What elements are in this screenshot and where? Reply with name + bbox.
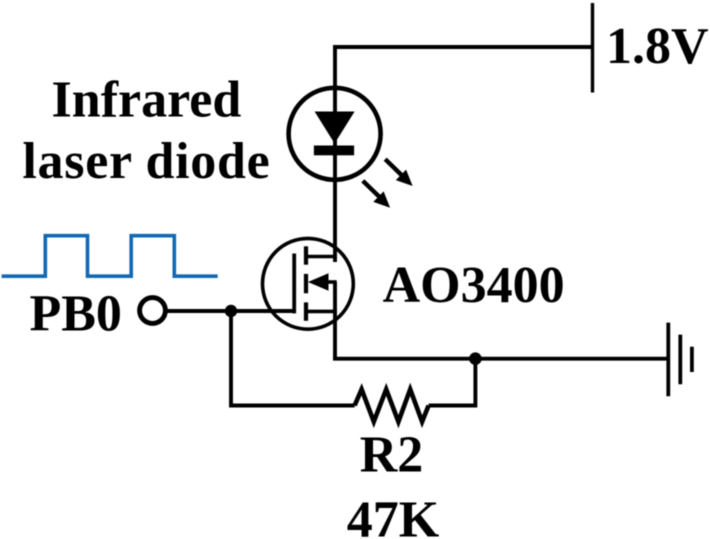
wire top horizontal bbox=[333, 45, 593, 49]
svg-text:AO3400: AO3400 bbox=[383, 257, 565, 314]
junction dot at source/resistor bbox=[469, 352, 482, 365]
svg-text:PB0: PB0 bbox=[29, 286, 121, 343]
svg-text:47K: 47K bbox=[347, 492, 440, 539]
PB0 square wave signal bbox=[2, 236, 218, 277]
diode anode triangle bbox=[315, 112, 355, 144]
resistor R2 zigzag bbox=[355, 389, 429, 421]
ground bar short bbox=[690, 347, 694, 372]
light emission arrow 2 bbox=[363, 181, 390, 208]
source stub bbox=[306, 310, 337, 314]
channel dash bottom bbox=[304, 302, 308, 320]
laser diode D1 bbox=[289, 88, 381, 180]
channel dash middle bbox=[304, 274, 308, 293]
transistor Q1 AO3400 MOSFET bbox=[263, 238, 354, 329]
body arrow line bbox=[322, 280, 337, 284]
PB0 terminal circle bbox=[140, 298, 166, 324]
wire bottom horizontal to ground bbox=[333, 357, 668, 361]
wire PB0 branch down bbox=[231, 311, 355, 406]
channel dash top bbox=[304, 246, 308, 264]
ground bbox=[668, 323, 692, 397]
ground bar long bbox=[666, 323, 670, 397]
wire source vertical bbox=[333, 282, 337, 359]
svg-text:R2: R2 bbox=[360, 427, 424, 484]
ground bar middle bbox=[678, 335, 682, 385]
gate bar bbox=[292, 254, 296, 314]
diode cathode bar bbox=[314, 146, 354, 156]
drain stub bbox=[306, 255, 337, 259]
wire resistor right lead up bbox=[429, 359, 476, 406]
junction dot at gate branch bbox=[225, 305, 237, 317]
svg-text:Infrared: Infrared bbox=[52, 72, 242, 129]
svg-text:laser diode: laser diode bbox=[22, 133, 270, 190]
svg-text:1.8V: 1.8V bbox=[606, 18, 709, 75]
wire gate lead bbox=[166, 309, 294, 313]
power rail 1.8V bar bbox=[591, 3, 594, 93]
laser diode circle bbox=[289, 88, 381, 180]
wire drain vertical bbox=[333, 45, 337, 262]
light emission arrow 1 bbox=[385, 159, 412, 186]
body arrow head bbox=[308, 273, 329, 290]
